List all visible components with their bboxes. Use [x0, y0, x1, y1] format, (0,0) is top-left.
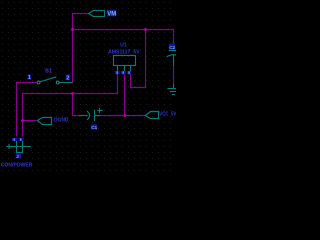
switch S1 [37, 81, 40, 84]
wire U1 pin3 down [130, 71, 132, 88]
connector J1 prong 2 [22, 141, 24, 153]
capacitor C1 plus sign [98, 109, 102, 113]
wire vertical VM to switch pin2 [72, 14, 74, 83]
wire top horizontal VIN bus [73, 29, 174, 31]
wire U1 pin2 down [124, 71, 126, 116]
wire gnd down to cap left [72, 94, 74, 116]
ground stem [173, 84, 175, 88]
svg-text:VCC_5V: VCC_5V [159, 111, 176, 117]
capacitor C1 straight plate [94, 111, 96, 121]
svg-text:C2: C2 [169, 45, 175, 50]
connector J1 minus sign [27, 146, 31, 148]
connector J1 prong 1 [16, 141, 18, 153]
label capacitor C2 name [169, 44, 176, 50]
label U1 pin1 number [115, 71, 120, 74]
node VM/VIN junction [71, 28, 74, 31]
wire down to U1 pin3 branch [145, 30, 147, 88]
capacitor C1 curved plate [88, 112, 90, 120]
svg-text:CON/POWER: CON/POWER [1, 162, 33, 168]
label connector J1 name [16, 154, 21, 159]
capacitor C2 curved plate [167, 55, 180, 57]
svg-text:VM: VM [107, 11, 116, 17]
netflag VM [89, 11, 105, 17]
svg-text:U1: U1 [120, 42, 127, 48]
svg-text:C1: C1 [91, 125, 97, 130]
label connector pin1 number [12, 138, 17, 141]
junction dots [21, 28, 147, 122]
capacitor C1 right lead [95, 115, 101, 117]
U1 pin 3 [130, 66, 132, 71]
node DGND junction [21, 119, 24, 122]
netflag VCC_5V [145, 112, 158, 119]
U1 pin 1 [117, 66, 119, 71]
connector J1 bottom rung [17, 152, 23, 154]
connector J1 plus sign [7, 145, 11, 149]
svg-text:J: J [16, 154, 19, 159]
regulator U1 body [114, 56, 136, 66]
wire horizontal to U1 pin3 [131, 87, 146, 89]
label VM [107, 10, 117, 18]
wire connector - vertical [22, 94, 24, 137]
label pin 1 (switch) [28, 74, 32, 79]
ground bar 1 [168, 88, 176, 90]
wire gnd horizontal [23, 93, 118, 95]
capacitor C2 bottom pin [173, 55, 175, 66]
wire to DGND flag [23, 120, 36, 122]
node VIN right junction [144, 28, 147, 31]
netflag DGND [37, 118, 51, 125]
svg-text:AMS1117_5V: AMS1117_5V [108, 50, 140, 56]
svg-text:S1: S1 [45, 69, 53, 75]
label capacitor C1 name [91, 124, 98, 130]
wire switch pin1 left [17, 82, 37, 84]
label U1 pin3 number [127, 71, 131, 74]
wire input cap to ground [173, 66, 175, 85]
label U1 pin2 number [121, 71, 126, 74]
wire cap C1 right to VCC flag [95, 115, 145, 117]
label connector pin2 number [18, 138, 23, 141]
wire left vertical to connector + [16, 83, 18, 137]
U1 pin 2 [124, 66, 126, 71]
grid dots [0, 0, 176, 176]
node VCC junction [124, 114, 127, 117]
ground bar 3 [173, 94, 175, 96]
svg-text:2: 2 [66, 75, 69, 81]
label pin 2 (switch) [66, 75, 71, 82]
wire to cap C1 left lead [73, 115, 81, 117]
capacitor C2 straight plate [170, 50, 177, 52]
svg-text:DGND: DGND [54, 118, 69, 124]
wire down to input cap [173, 30, 175, 45]
connector J1 lead bar [12, 146, 27, 148]
node GND junction [71, 92, 74, 95]
wire VM stub [73, 13, 89, 15]
wire U1 pin1 down [117, 71, 119, 94]
ground bar 2 [171, 91, 177, 93]
capacitor C1 left lead [80, 115, 88, 117]
svg-text:1: 1 [28, 75, 31, 81]
